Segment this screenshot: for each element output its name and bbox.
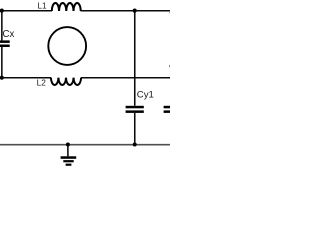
wire top line right segment [81,10,170,12]
wire left vertical lower segment [1,47,3,78]
choke core circle [48,27,86,65]
svg-text:Cy1: Cy1 [137,89,154,100]
wire stub right edge [169,11,171,13]
node junction ground at choke [66,143,70,147]
ground symbol stem [67,145,69,157]
node junction lower-left [0,76,4,80]
svg-text:L1: L1 [37,0,47,10]
wire left vertical upper segment [1,11,3,41]
node junction top-left [0,9,4,13]
svg-text:L2: L2 [37,77,47,87]
inductor L2 [51,78,81,85]
svg-text:Cx: Cx [3,29,15,40]
node junction ground at Cy1 [133,143,137,147]
ground bus wire [0,144,170,146]
wire top line left segment [0,10,52,12]
wire Cy1 branch upper [134,11,136,106]
ground symbol bars [61,156,77,166]
capacitor Cy2 (clipped at right edge) [164,106,182,113]
stray mark right edge [168,65,171,67]
capacitor Cy1 [126,106,144,113]
wire lower line right segment [81,77,170,79]
capacitor Cx [0,40,10,47]
inductor L1 [52,3,81,11]
wire lower line left segment [2,77,51,79]
node junction top at Cy1 branch [133,9,137,13]
wire Cy1 branch lower [134,113,136,145]
